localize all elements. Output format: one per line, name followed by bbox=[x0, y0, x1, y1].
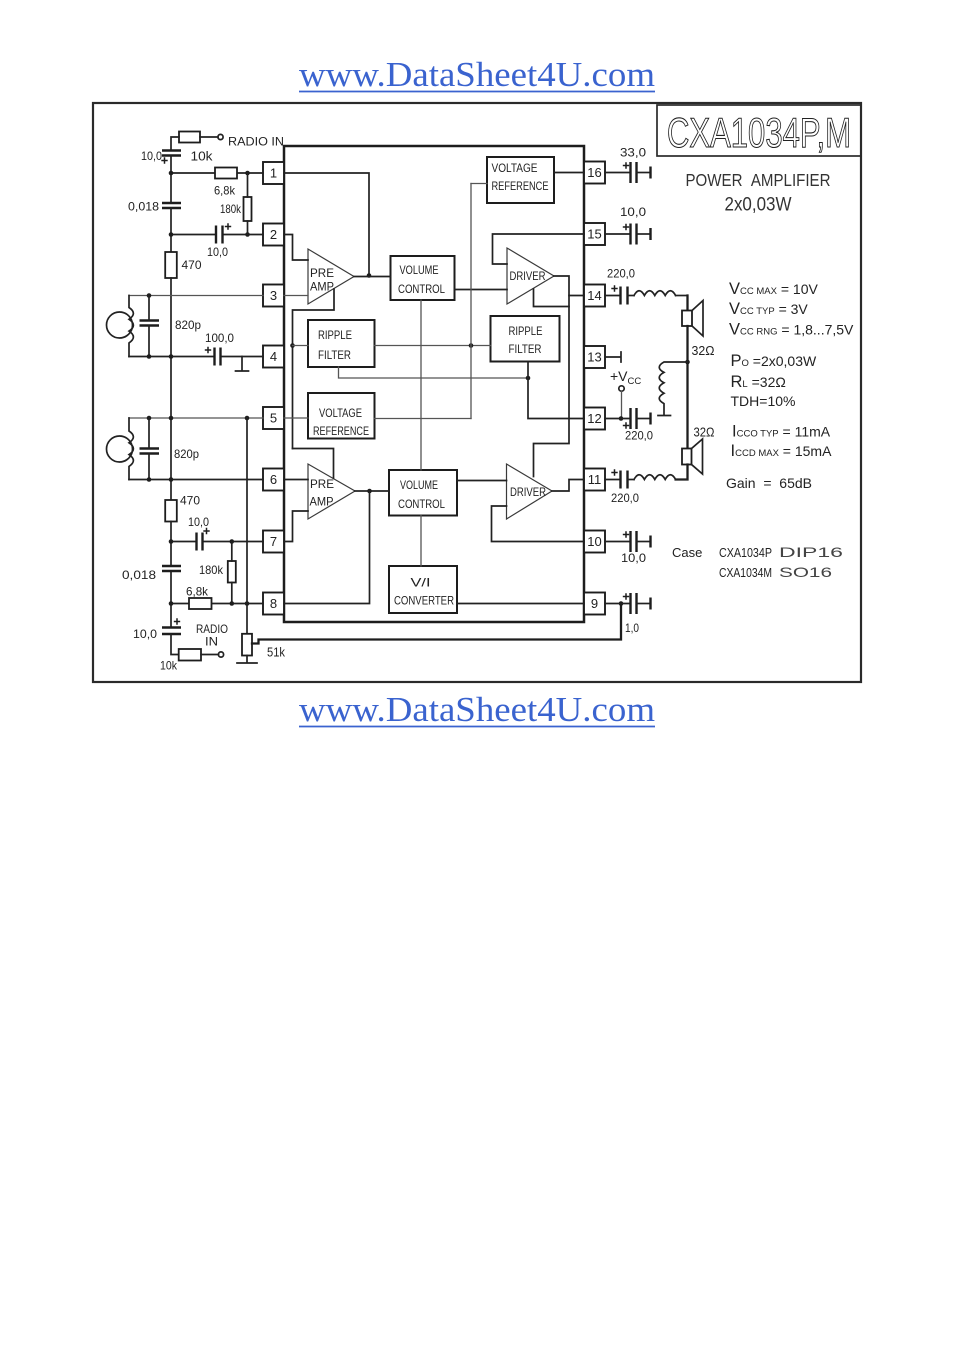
wire 180k bottom leads bbox=[231, 542, 233, 604]
svg-text:33,0: 33,0 bbox=[620, 146, 646, 160]
svg-text:REFERENCE: REFERENCE bbox=[492, 179, 549, 193]
svg-text:V/I: V/I bbox=[411, 576, 431, 590]
potentiometer 51k bbox=[242, 634, 252, 656]
resistor 470 (bottom) bbox=[165, 500, 177, 522]
capacitor 1,0 electrolytic (pin9) bbox=[605, 603, 630, 605]
svg-text:www.DataSheet4U.com: www.DataSheet4U.com bbox=[299, 55, 655, 94]
wire pin13 stub bbox=[605, 352, 621, 362]
svg-text:180k: 180k bbox=[199, 563, 224, 577]
resistor 10k (radio input top) bbox=[179, 132, 200, 143]
wire 820p leads (top) bbox=[148, 296, 150, 357]
svg-text:PRE: PRE bbox=[310, 477, 334, 491]
svg-text:FILTER: FILTER bbox=[509, 342, 542, 356]
wire pin4 line bbox=[129, 356, 263, 358]
svg-text:220,0: 220,0 bbox=[607, 267, 635, 281]
svg-text:220,0: 220,0 bbox=[611, 491, 639, 505]
svg-text:10,0: 10,0 bbox=[188, 515, 209, 529]
svg-text:FILTER: FILTER bbox=[318, 348, 351, 362]
resistor 180k (bottom) bbox=[228, 561, 236, 583]
wire feedback into preamp2 top edge bbox=[293, 449, 334, 479]
svg-text:32Ω: 32Ω bbox=[694, 425, 715, 440]
block volume control (top) bbox=[391, 256, 455, 300]
block V/I converter bbox=[389, 566, 457, 613]
svg-text:2: 2 bbox=[270, 227, 277, 242]
svg-text:10,0: 10,0 bbox=[621, 551, 646, 565]
wire 180k bottom lead bbox=[247, 221, 249, 235]
wire volume-control to V/I converter vertical bbox=[420, 516, 422, 567]
svg-text:RIPPLE: RIPPLE bbox=[509, 324, 543, 338]
pin 10 box bbox=[584, 531, 605, 553]
terminal RADIO IN (top) bbox=[218, 134, 223, 139]
svg-text:DRIVER: DRIVER bbox=[510, 269, 546, 283]
wire pin7 line bbox=[171, 541, 263, 543]
wire 10k left lead bbox=[171, 137, 179, 151]
wire pin2 line bbox=[171, 234, 263, 236]
svg-text:VOLUME: VOLUME bbox=[400, 478, 438, 492]
svg-text:CXA1034P: CXA1034P bbox=[719, 545, 772, 560]
wire ripple filter left to right bbox=[375, 345, 491, 347]
wire bootstrap vertical between drivers bbox=[534, 307, 570, 477]
pin 8 box bbox=[263, 593, 284, 615]
node ripple filter right bottom junction bbox=[526, 376, 531, 381]
svg-text:10k: 10k bbox=[160, 659, 178, 673]
svg-text:15: 15 bbox=[587, 227, 601, 242]
pin 1 box bbox=[263, 162, 284, 184]
block voltage reference (top) bbox=[487, 157, 554, 203]
wire preamp1 feedback loop bbox=[293, 289, 335, 449]
resistor 10k (radio input bottom) bbox=[179, 649, 201, 661]
pin 15 box bbox=[584, 223, 605, 245]
wire pin5 to voltage reference left bbox=[284, 417, 308, 419]
speaker 1 (32 ohm) bbox=[682, 311, 692, 327]
pin 4 box bbox=[263, 346, 284, 368]
wire rail bottom bend to 10k bbox=[171, 634, 179, 655]
svg-text:AMP: AMP bbox=[310, 495, 334, 509]
svg-text:4: 4 bbox=[270, 349, 277, 364]
block ripple filter (right) bbox=[491, 316, 560, 362]
block ripple filter (left) bbox=[308, 320, 375, 367]
svg-text:DIP16: DIP16 bbox=[779, 544, 843, 560]
wire pin8 line bbox=[171, 603, 263, 605]
svg-text:RIPPLE: RIPPLE bbox=[318, 328, 352, 342]
pin 7 box bbox=[263, 531, 284, 553]
wire preamp1 output to volume control bbox=[354, 276, 391, 278]
svg-text:11: 11 bbox=[588, 472, 602, 487]
wire driver1 feedback bbox=[534, 289, 570, 307]
svg-text:VOLTAGE: VOLTAGE bbox=[492, 161, 538, 175]
terminal Vcc circle bbox=[619, 386, 624, 391]
op-amp driver (bottom) triangle bbox=[507, 464, 553, 519]
pin 3 box bbox=[263, 285, 284, 307]
svg-text:820p: 820p bbox=[174, 447, 199, 461]
svg-text:10k: 10k bbox=[191, 149, 214, 164]
wire volume control2 output to driver2 bbox=[457, 480, 507, 482]
node preamp2 output junction bbox=[367, 489, 372, 494]
wire pin7 to preamp2 lower input bbox=[284, 511, 308, 542]
svg-text:10,0: 10,0 bbox=[133, 627, 157, 641]
svg-text:10: 10 bbox=[587, 534, 601, 549]
pin 13 box bbox=[584, 346, 605, 368]
capacitor 0,018 (bottom) bbox=[162, 565, 181, 567]
wire voltage reference left output bbox=[375, 418, 472, 420]
svg-text:10,0: 10,0 bbox=[141, 149, 162, 163]
svg-text:CONTROL: CONTROL bbox=[398, 497, 445, 511]
wire volume pot sense vertical (pin5 to 51k) bbox=[246, 418, 248, 634]
wire pin6 line bbox=[129, 479, 263, 481]
terminal RADIO IN (bottom) bbox=[218, 652, 223, 657]
wire rail 470 down to pin4 line and pin6 line bbox=[170, 278, 172, 500]
wire speaker2 to pin11 corner bbox=[676, 465, 688, 480]
pin 16 box bbox=[584, 162, 605, 184]
svg-text:180k: 180k bbox=[220, 202, 242, 216]
svg-text:7: 7 bbox=[270, 534, 277, 549]
svg-text:6: 6 bbox=[270, 472, 277, 487]
wire pin2 to preamp1 upper input bbox=[284, 235, 308, 261]
svg-text:AMP: AMP bbox=[310, 280, 334, 294]
outer schematic border frame bbox=[93, 103, 861, 682]
capacitor 0,018 (top) bbox=[162, 202, 181, 204]
node pin9 external junction bbox=[619, 601, 624, 606]
ground (51k bottom) bbox=[237, 656, 257, 664]
pin 6 box bbox=[263, 469, 284, 491]
block voltage reference (left) bbox=[308, 393, 375, 439]
svg-text:www.DataSheet4U.com: www.DataSheet4U.com bbox=[299, 690, 655, 729]
wire pin3 to preamp1 lower input bbox=[284, 295, 308, 297]
inductor center tap (vertical) bbox=[658, 362, 688, 416]
title box CXA1034P,M bbox=[657, 105, 861, 156]
wire rail lower section bbox=[170, 522, 172, 628]
svg-text:REFERENCE: REFERENCE bbox=[313, 424, 369, 438]
svg-text:Case: Case bbox=[672, 545, 702, 560]
wire voltage reference top output to pin16 bbox=[554, 172, 584, 174]
node ripple filter left input junction bbox=[290, 343, 295, 348]
svg-text:220,0: 220,0 bbox=[625, 429, 653, 443]
pin 2 box bbox=[263, 224, 284, 246]
wire speaker1 to junction to speaker2 bbox=[686, 326, 688, 449]
svg-text:VOLTAGE: VOLTAGE bbox=[319, 406, 362, 420]
capacitor 820p (bottom head) bbox=[140, 447, 160, 449]
IC CXA1034 body outline bbox=[284, 146, 584, 622]
wire preamp2 output to volume control2 bbox=[355, 490, 389, 492]
svg-text:Gain = 65dB: Gain = 65dB bbox=[726, 475, 812, 491]
capacitor 220,0 + inductor (pin14) bbox=[605, 295, 620, 297]
wire driver1 output to pin14 bbox=[554, 276, 584, 296]
wire rail between 0,018 and 470 bbox=[170, 208, 172, 252]
op-amp driver (top) triangle bbox=[507, 248, 554, 304]
capacitor 10,0 electrolytic (pin10) bbox=[605, 541, 630, 543]
wire 180k top lead bbox=[247, 173, 249, 197]
svg-text:100,0: 100,0 bbox=[205, 331, 234, 345]
wire into voltage reference top input bbox=[471, 183, 487, 185]
node preamp1 output junction bbox=[367, 273, 372, 278]
svg-text:SO16: SO16 bbox=[779, 564, 832, 580]
svg-text:13: 13 bbox=[587, 350, 601, 365]
svg-text:RL =32Ω: RL =32Ω bbox=[731, 373, 786, 391]
capacitor 10,0 electrolytic (pin7) bbox=[195, 533, 197, 551]
speaker 2 (32 ohm) bbox=[682, 449, 692, 465]
svg-text:470: 470 bbox=[180, 494, 200, 508]
svg-text:POWER AMPLIFIER: POWER AMPLIFIER bbox=[686, 170, 831, 190]
svg-text:DRIVER: DRIVER bbox=[510, 485, 546, 499]
resistor 470 (top) bbox=[165, 252, 177, 278]
pin 5 box bbox=[263, 407, 284, 429]
capacitor 10,0 electrolytic (bottom left) bbox=[162, 626, 181, 628]
wire speaker1 feed bbox=[686, 296, 688, 311]
resistor 180k (top) bbox=[244, 197, 252, 221]
wire pin8 feedback to preamp2 output bbox=[284, 491, 370, 604]
node ripple filter interconnect junction bbox=[469, 343, 474, 348]
wire ripple filter right bottom to pin12 bbox=[528, 362, 584, 419]
capacitor 33,0 electrolytic (pin16) bbox=[605, 172, 630, 174]
svg-text:470: 470 bbox=[182, 258, 202, 272]
wire 51k wiper to bottom bus bbox=[252, 604, 621, 644]
capacitor 10,0 electrolytic (pin15) bbox=[605, 233, 630, 235]
wire pin1 to preamp output node bbox=[284, 173, 369, 276]
pin 14 box bbox=[584, 285, 605, 307]
resistor 6,8k (top) bbox=[215, 168, 237, 179]
wire Vcc to pin12 line bbox=[621, 391, 623, 419]
pin 9 box bbox=[584, 593, 605, 615]
svg-text:IN: IN bbox=[205, 635, 218, 649]
wire pin3 line bbox=[129, 295, 263, 297]
pin 12 box bbox=[584, 408, 605, 430]
capacitor 220,0 + inductor (pin11) bbox=[605, 479, 620, 481]
svg-text:TDH=10%: TDH=10% bbox=[731, 393, 796, 409]
svg-text:CONVERTER: CONVERTER bbox=[394, 594, 454, 608]
capacitor 820p (top head) bbox=[140, 319, 160, 321]
svg-text:RADIO IN: RADIO IN bbox=[228, 135, 284, 149]
block volume control (bottom) bbox=[389, 470, 457, 516]
wire ripple filter left bottom tap bbox=[339, 367, 529, 378]
svg-text:10,0: 10,0 bbox=[207, 245, 228, 259]
svg-text:3: 3 bbox=[270, 288, 277, 303]
svg-text:2x0,03W: 2x0,03W bbox=[725, 195, 792, 216]
svg-text:CONTROL: CONTROL bbox=[398, 282, 445, 296]
wire pin10 to driver2 lower input bbox=[492, 506, 585, 542]
capacitor 10,0 electrolytic (top left) bbox=[162, 149, 181, 151]
pin 11 box bbox=[584, 469, 605, 491]
svg-text:10,0: 10,0 bbox=[620, 205, 646, 219]
svg-text:0,018: 0,018 bbox=[122, 568, 156, 582]
op-amp pre amp (top) triangle bbox=[308, 249, 354, 304]
wire 10k to bottom radio terminal bbox=[201, 654, 219, 656]
wire 820p leads (bottom) bbox=[148, 418, 150, 480]
svg-text:8: 8 bbox=[270, 596, 277, 611]
svg-text:14: 14 bbox=[587, 288, 601, 303]
svg-text:0,018: 0,018 bbox=[128, 200, 159, 214]
svg-text:32Ω: 32Ω bbox=[692, 343, 715, 358]
svg-text:6,8k: 6,8k bbox=[186, 585, 209, 599]
wire pin15 to driver1 upper input bbox=[493, 234, 585, 264]
ground stub (pin4) bbox=[236, 357, 249, 372]
svg-text:5: 5 bbox=[270, 411, 277, 426]
svg-text:1,0: 1,0 bbox=[625, 621, 639, 635]
wire voltage reference chain vertical bbox=[470, 184, 472, 419]
svg-text:CXA1034M: CXA1034M bbox=[719, 565, 772, 580]
svg-text:9: 9 bbox=[591, 596, 598, 611]
svg-text:CXA1034P,M: CXA1034P,M bbox=[667, 109, 851, 156]
wire driver2 output to pin11 bbox=[552, 480, 584, 492]
svg-text:820p: 820p bbox=[175, 318, 201, 332]
wire pin1 line bbox=[171, 172, 263, 174]
svg-text:51k: 51k bbox=[267, 645, 285, 660]
resistor 6,8k (bottom) bbox=[189, 598, 212, 609]
op-amp pre amp (bottom) triangle bbox=[308, 464, 355, 519]
svg-text:PRE: PRE bbox=[310, 266, 334, 280]
wire main left bias rail (upper) bbox=[170, 156, 172, 204]
capacitor 100,0 electrolytic (pin4) bbox=[213, 348, 215, 366]
svg-text:16: 16 bbox=[587, 165, 601, 180]
wire pin6 to preamp2 upper input bbox=[284, 479, 308, 481]
wire V/I converter output to pin9 bbox=[457, 603, 584, 605]
node center inductor junction bbox=[685, 360, 690, 365]
capacitor 10,0 electrolytic (pin2) bbox=[215, 226, 217, 244]
tape head 1 (coil and circle) bbox=[107, 312, 133, 338]
tape head 2 (coil and circle) bbox=[107, 436, 133, 462]
wire pin5 line bbox=[129, 417, 263, 419]
capacitor 220,0 electrolytic (pin12) bbox=[605, 418, 630, 420]
wire 10k right lead to terminal bbox=[200, 136, 218, 138]
wire to ripple filter left input bbox=[293, 345, 309, 347]
wire volume control1 output to driver1 bbox=[455, 289, 508, 291]
svg-text:VOLUME: VOLUME bbox=[400, 263, 439, 277]
svg-text:1: 1 bbox=[270, 166, 277, 181]
svg-text:12: 12 bbox=[587, 411, 601, 426]
wire volume-control chain vertical (top) bbox=[420, 300, 422, 470]
svg-text:6,8k: 6,8k bbox=[214, 184, 236, 198]
